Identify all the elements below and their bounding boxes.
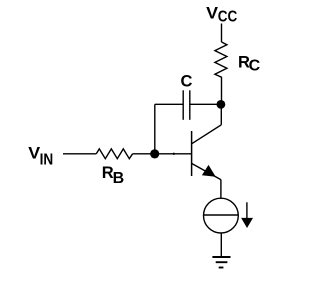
wire emitter to current source [220,180,222,199]
wire current source to ground [220,233,222,256]
svg-text:IN: IN [40,151,54,168]
node VIN label [28,145,53,169]
label RC [238,53,261,74]
transistor Q1 collector diagonal [192,125,222,144]
wire node to capacitor right plate [190,103,221,105]
ground middle bar [216,261,228,263]
capacitor C [189,90,191,120]
current source I1 bar [204,214,239,216]
resistor RB [96,149,132,159]
wire left branch down to base node [154,104,156,154]
wire capacitor left plate to left branch [155,103,183,105]
svg-text:V: V [28,145,40,163]
node VCC label [206,5,237,26]
transistor Q1 emitter arrow [202,165,216,177]
label RB [102,164,124,187]
ground top bar [212,256,230,258]
current direction arrowhead [241,218,253,228]
ground bottom bar [219,267,224,269]
wire VIN to RB [63,153,96,155]
label C [181,73,193,91]
node base junction [150,149,159,158]
wire RB to base [133,153,192,155]
svg-text:C: C [181,73,193,91]
svg-text:V: V [206,5,218,23]
node collector junction [217,100,226,109]
svg-text:CC: CC [218,9,238,26]
transistor Q1 emitter diagonal [192,164,221,180]
current direction arrow line [246,202,248,218]
wire collector vertical [220,104,222,124]
current source I1 circle [204,198,239,233]
resistor RC [215,42,227,79]
wire RC to collector node [221,79,223,104]
svg-text:B: B [113,170,125,187]
transistor Q1 base bar [191,131,193,176]
wire VCC to RC [221,24,223,43]
svg-text:C: C [249,58,261,75]
junction dot on base wire [173,153,175,155]
